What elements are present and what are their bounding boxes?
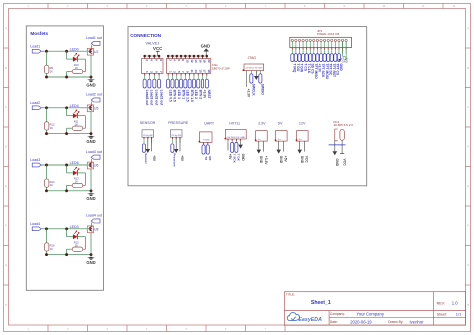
svg-text:C: C [467,106,469,109]
net port +3.3V [201,79,206,99]
wire drain [90,223,92,226]
net port BTN 2 [197,79,203,99]
svg-text:Drawn By:: Drawn By: [388,320,403,324]
connector SENSOR [140,121,156,143]
svg-text:T DO: T DO [296,64,300,72]
ground [86,77,95,87]
svg-text:Load1 out: Load1 out [86,36,102,40]
junction [45,106,48,109]
wire source to ground [90,55,92,77]
svg-text:TITLE:: TITLE: [286,292,295,296]
svg-text:11: 11 [190,70,194,74]
svg-text:+5V Sig GND: +5V Sig GND [171,135,182,137]
power pin +5V [228,142,232,160]
svg-text:T DX: T DX [237,154,241,162]
LED LED6 [67,161,86,185]
svg-text:Load2: Load2 [30,101,40,105]
CN1 pin numbers [168,59,211,73]
svg-text:+5V: +5V [228,154,232,161]
ground [86,134,95,144]
svg-text:Sensor: Sensor [144,153,148,164]
wire source to ground [90,233,92,255]
junction [90,253,93,256]
net flag Load3 [30,158,41,167]
junction [167,55,170,58]
svg-text:TFT CS: TFT CS [336,64,340,76]
svg-text:T DIN: T DIN [300,64,304,73]
svg-text:Load1 out: Load1 out [159,90,163,107]
wire source/ground rail [47,76,92,78]
svg-text:1.0: 1.0 [452,301,458,306]
svg-text:+5V: +5V [284,156,288,163]
connector VALVE1 [142,41,164,79]
net port TFT CS [334,54,340,76]
connector 3.3V [255,122,268,142]
wire drain [90,159,92,162]
svg-text:19: 19 [207,69,211,73]
wire gate rail [41,164,87,166]
svg-text:+5V SCK DX GND: +5V SCK DX GND [226,137,246,139]
svg-text:Load4 out: Load4 out [86,214,102,218]
svg-text:+3.3V SWCLK GND SWDIO: +3.3V SWCLK GND SWDIO [245,67,263,69]
net port DX [235,142,241,161]
svg-text:GND: GND [86,196,95,201]
power pin +5V [284,141,288,162]
junction [45,132,48,135]
net port Load3 out [148,79,154,106]
wire gate rail [41,228,87,230]
net port Load2 out [153,79,159,106]
svg-text:Date:: Date: [330,320,338,324]
net port TFT MOSI [323,54,329,79]
svg-text:Pressure: Pressure [173,153,177,167]
Mosfets sheet box [26,26,103,290]
svg-text:BTN 0.5: BTN 0.5 [173,90,177,102]
svg-text:40-505 5.5-2.0: 40-505 5.5-2.0 [333,123,353,127]
svg-text:Load2 out: Load2 out [86,93,102,97]
svg-text:C: C [5,106,7,109]
svg-text:NRST: NRST [207,90,211,99]
svg-text:+3.3V: +3.3V [203,90,207,100]
ground arrow [276,141,283,164]
svg-text:TFT SCK: TFT SCK [321,64,325,79]
power pin +3.3V [264,141,268,165]
net port SCK [231,142,237,163]
MOSFET U6 [87,162,98,169]
svg-text:HX711: HX711 [229,122,240,126]
connector JP1 PINHD-1X16 CB [290,29,352,54]
svg-text:12: 12 [190,59,194,63]
svg-text:+3.3V: +3.3V [318,64,322,74]
svg-text:5V: 5V [278,122,283,126]
net flag Load4 out [86,214,102,223]
junction [45,164,48,167]
svg-text:GND: GND [86,260,95,265]
junction [184,55,187,58]
net port TFT RST [330,54,336,77]
svg-text:GND: GND [259,156,263,164]
junction [45,189,48,192]
net port TFT DC [327,54,333,76]
svg-text:Sheet:: Sheet: [437,312,447,316]
svg-text:VCC: VCC [305,156,309,164]
svg-text:14: 14 [194,59,198,63]
junction [90,189,93,192]
junction [65,253,68,256]
power label +3.3V [247,71,251,98]
svg-text:TFT RST: TFT RST [332,64,336,78]
junction [45,253,48,256]
svg-text:Mosfets: Mosfets [30,31,48,36]
resistor R15 1K [67,241,86,255]
svg-text:Load3 out: Load3 out [86,150,102,154]
svg-text:U2: U2 [94,50,98,54]
svg-text:+3.3V: +3.3V [247,89,251,98]
svg-text:GND: GND [279,156,283,164]
net port RX [206,145,212,162]
net port Pressure [171,144,177,167]
net flag Load2 out [86,93,102,102]
junction [65,227,68,230]
net port T CLK [305,54,311,74]
junction [148,55,151,58]
svg-text:17: 17 [203,69,207,73]
svg-text:LED4: LED4 [70,104,79,108]
svg-text:TFT MISO: TFT MISO [314,64,318,80]
wire GND rail [168,55,207,57]
svg-text:15: 15 [198,69,202,73]
net port SWCLK [250,74,256,97]
svg-text:Sheet_1: Sheet_1 [311,300,331,306]
net flag Load1 [30,44,41,53]
ground arrow [254,71,259,80]
svg-text:D: D [5,146,7,149]
svg-text:T CLK: T CLK [307,64,311,74]
junction [158,55,161,58]
wire VCC rail [145,55,159,57]
junction [153,55,156,58]
net port Load4 out [143,79,149,106]
svg-text:LED 1.5: LED 1.5 [186,90,190,102]
net port T CS [302,54,308,72]
svg-text:U5: U5 [94,107,98,111]
junction [143,55,146,58]
svg-text:18: 18 [203,59,207,63]
svg-text:+5V Sig GND: +5V Sig GND [143,135,154,137]
svg-text:BTN 1.5: BTN 1.5 [190,90,194,102]
junction [45,50,48,53]
net port T DIN [298,54,304,73]
junction [90,76,93,79]
connector JTAG [243,56,264,74]
power pin +5V [180,137,184,162]
net port LED 1 [175,79,181,99]
title text [286,292,462,324]
connector 12V [296,122,309,142]
svg-text:TFT MOSI: TFT MOSI [325,64,329,79]
ground [86,255,95,265]
svg-text:Load3 out: Load3 out [150,90,154,107]
MOSFET U5 [87,105,98,112]
svg-text:GND: GND [201,44,211,49]
svg-text:GND: GND [86,82,95,87]
svg-text:H: H [467,304,469,307]
resistor R11 1K [67,120,86,134]
net flag Load1 out [86,36,102,45]
svg-text:JTAG: JTAG [248,56,257,60]
junction [65,189,68,192]
svg-text:2020-06-19: 2020-06-19 [350,319,372,324]
ground [333,151,340,166]
svg-text:16: 16 [198,59,202,63]
svg-text:+5V: +5V [152,155,156,162]
net port BTN 1.5 [188,79,194,102]
svg-text:TFT DC: TFT DC [328,64,332,76]
svg-text:+5V: +5V [180,155,184,162]
svg-text:T IRQ: T IRQ [293,64,297,73]
svg-text:GND: GND [86,139,95,144]
svg-text:BTN 2: BTN 2 [198,90,202,100]
power flag VCC [153,46,163,56]
svg-text:GND: GND [342,60,348,64]
junction [201,55,204,58]
net port TX [202,145,208,161]
svg-text:Load2 out: Load2 out [155,90,159,107]
power pin VCC [340,154,346,167]
svg-text:BTN 1: BTN 1 [181,90,185,100]
net port Sensor [142,144,148,165]
resistor R16 1K [45,229,56,255]
svg-text:1K: 1K [50,126,53,130]
svg-text:EasyEDA: EasyEDA [298,317,322,323]
svg-text:20: 20 [207,59,211,63]
net port NRST [205,79,211,98]
junction [65,164,68,167]
LED LED0 [67,47,86,71]
svg-text:LED 1: LED 1 [177,90,181,100]
resistor R9 1K [45,51,54,77]
svg-text:U6: U6 [94,164,98,168]
ground arrow [238,142,245,161]
net port T IRQ [291,54,297,73]
wire source/ground rail [47,190,92,192]
svg-text:1K: 1K [50,183,53,187]
junction [188,55,191,58]
net port Load1 out [158,79,164,106]
power pin VCC [305,141,309,163]
junction [65,106,68,109]
ground arrow [257,141,264,164]
junction [45,227,48,230]
wire source/ground rail [47,254,92,256]
net port LED 0.5 [167,79,173,102]
connector PRESSURE [168,121,189,143]
junction [180,55,183,58]
svg-text:Company:: Company: [330,312,345,316]
junction [65,132,68,135]
wire pin15 to +3.3V [341,42,348,61]
net port BTN 1 [180,79,186,99]
junction [65,76,68,79]
svg-text:PINHD-1X16 CB: PINHD-1X16 CB [317,32,339,36]
junction [206,55,209,58]
svg-text:1K: 1K [50,247,53,251]
svg-text:S8070-2*10P: S8070-2*10P [212,67,230,71]
svg-text:LED0: LED0 [70,47,79,51]
svg-text:3.3V: 3.3V [258,122,266,126]
net flag Load3 out [86,150,102,159]
svg-text:T SCK: T SCK [232,154,236,164]
svg-text:H: H [5,304,7,307]
net flag Load2 [30,101,41,110]
net port SWDIO [259,74,265,96]
svg-text:1K: 1K [50,69,53,73]
resistor R13 1K [67,177,86,191]
svg-text:SENSOR: SENSOR [140,121,156,125]
LED LED4 [67,104,86,128]
wire [329,144,346,146]
svg-text:10: 10 [185,59,189,63]
svg-text:LED 2: LED 2 [194,90,198,100]
resistor R12 1K [45,108,56,134]
svg-text:D: D [467,146,469,149]
svg-text:GND: GND [300,156,304,164]
svg-text:UART: UART [204,122,215,126]
svg-text:REV:: REV: [437,301,445,305]
wire source to ground [90,169,92,191]
MOSFET U8 [87,226,98,233]
resistor R10 1K [67,63,86,77]
svg-text:G: G [5,264,7,267]
ground arrow [297,141,304,164]
svg-text:Ivenhor: Ivenhor [410,319,425,324]
junction [171,55,174,58]
junction [176,55,179,58]
net port +3.3V [316,54,322,73]
connector 5V [275,122,288,142]
svg-text:TX RX: TX RX [203,140,210,142]
svg-text:GND: GND [339,64,343,72]
title block [284,292,465,326]
svg-text:13: 13 [194,69,198,73]
wire source/ground rail [47,133,92,135]
net port LED 2 [192,79,198,99]
svg-text:Load3: Load3 [30,158,40,162]
svg-text:PRESSURE: PRESSURE [168,121,189,125]
junction [65,50,68,53]
power pin +5V [152,137,156,162]
junction [193,55,196,58]
svg-text:LED6: LED6 [70,161,79,165]
junction [197,55,200,58]
resistor R14 1K [45,165,56,191]
wire source to ground [90,112,92,134]
wire gate rail [41,107,87,109]
svg-text:SWDIO: SWDIO [261,84,265,96]
net port T DO [294,54,300,72]
wire pin16 to GND [339,42,348,64]
svg-text:SWCLK: SWCLK [252,84,256,97]
connector HX711 [224,122,246,142]
svg-text:VALVE1: VALVE1 [146,41,160,45]
svg-text:Your Company: Your Company [356,311,384,316]
connector UART [199,122,215,146]
wire drain [90,102,92,105]
svg-text:1/1: 1/1 [456,311,462,316]
svg-text:VCC: VCC [153,46,163,51]
net port BTN 0.5 [171,79,177,102]
svg-text:Load4 out: Load4 out [145,90,149,107]
net port TFT SCK [320,54,326,78]
wire gate rail [41,50,87,52]
junction [45,76,48,79]
svg-text:VCC: VCC [342,159,346,167]
net port TFT MISO [312,54,318,80]
ground [86,191,95,201]
wire drain [90,45,92,48]
svg-text:SD CS: SD CS [310,64,314,75]
svg-text:GND: GND [335,159,339,167]
junction [90,132,93,135]
svg-text:Load1: Load1 [30,44,40,48]
svg-text:G: G [467,264,469,267]
svg-text:Load4: Load4 [30,222,40,226]
connector DC1 40-505 5.5-2.0 [329,120,354,154]
svg-text:LED 0.5: LED 0.5 [168,90,172,102]
VALVE1 pin numbers [145,59,163,73]
svg-text:GND: GND [241,154,245,162]
net port GND [337,54,343,72]
svg-text:+3.3V: +3.3V [264,156,268,166]
LED LED3 [67,225,86,249]
ground arrow [174,137,179,153]
connector CN1 S8070-2*10P [166,56,229,79]
net flag Load4 [30,222,41,231]
net port SD CS [309,54,315,75]
CONNECTION sheet box [128,27,367,186]
ground flag GND [201,44,211,56]
svg-text:T CS: T CS [303,64,307,72]
MOSFET U2 [87,48,98,55]
net port LED 1.5 [184,79,190,102]
ground arrow [146,137,151,153]
svg-text:12V: 12V [299,122,306,126]
svg-text:CONNECTION: CONNECTION [130,33,162,38]
svg-text:U8: U8 [94,228,98,232]
svg-text:LED3: LED3 [70,225,79,229]
EasyEDA logo [287,313,322,324]
